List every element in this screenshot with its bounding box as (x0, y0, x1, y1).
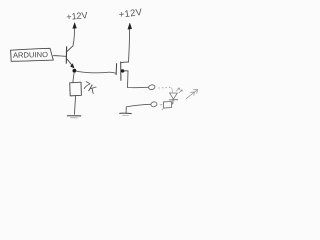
wire node to mosfet gate (76, 71, 116, 73)
wire collector to +12V (73, 28, 74, 45)
arduino block U1 (11, 48, 54, 61)
mosfet body dot (121, 69, 124, 72)
svg-text:+12V: +12V (66, 10, 88, 22)
wire down to LED anode (171, 88, 172, 93)
power +12V arrow (right) (128, 23, 132, 29)
transistor Q1 (NPN) (66, 46, 74, 68)
wire node to resistor (73, 72, 74, 82)
LED D1 (169, 93, 177, 104)
wire resistor to ground (75, 96, 76, 114)
dotted wire to LED (159, 86, 172, 89)
ground (right) (120, 107, 132, 116)
wire ground to terminal (bottom) (127, 104, 151, 107)
resistor R1 (70, 82, 82, 96)
connector plug (rectangle) (162, 102, 172, 111)
power +12V arrow (left) (73, 23, 77, 29)
mosfet Q2 (116, 62, 128, 80)
wire arduino to base (53, 55, 66, 58)
ground (left) (67, 116, 80, 118)
connector terminal (bottom) (150, 101, 157, 107)
wire source to terminal (128, 86, 149, 88)
LED emission arrows (176, 88, 182, 93)
wire plug to LED cathode (172, 100, 173, 104)
node A junction dot (73, 69, 77, 73)
dash between terminal and plug (160, 104, 162, 106)
light arrow (far right) (186, 90, 197, 99)
wire mosfet source down (127, 71, 130, 88)
wire drain to +12V (129, 29, 130, 62)
svg-text:ARDUINO: ARDUINO (13, 50, 48, 60)
connector terminal (top) (148, 84, 155, 90)
